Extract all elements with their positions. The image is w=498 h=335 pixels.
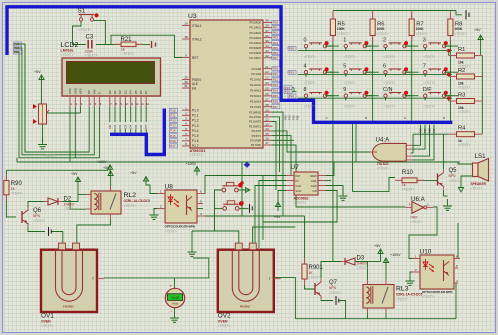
- svg-text:<TEXT>: <TEXT>: [384, 55, 396, 59]
- svg-text:P0.2/AD2: P0.2/AD2: [249, 31, 261, 35]
- svg-text:<TEXT>: <TEXT>: [458, 86, 470, 90]
- svg-text:<TEXT>: <TEXT>: [124, 204, 137, 208]
- svg-text:P07: P07: [273, 56, 279, 60]
- svg-text:AT89C51: AT89C51: [190, 149, 206, 153]
- svg-text:<TEXT>: <TEXT>: [344, 81, 356, 85]
- svg-text:10: 10: [265, 108, 269, 112]
- svg-text:<TEXT>: <TEXT>: [304, 81, 316, 85]
- svg-text:P0.6/AD6: P0.6/AD6: [249, 51, 261, 55]
- svg-text:P17: P17: [170, 144, 176, 148]
- svg-text:<TEXT>: <TEXT>: [165, 230, 177, 234]
- svg-text:RS: RS: [87, 90, 91, 94]
- svg-text:23: 23: [265, 76, 269, 80]
- svg-text:<TEXT>: <TEXT>: [61, 53, 74, 57]
- svg-text:P1.0: P1.0: [192, 109, 199, 113]
- svg-text:Heater: Heater: [240, 305, 252, 309]
- svg-text:36: 36: [265, 34, 269, 38]
- svg-text:R3: R3: [458, 92, 465, 98]
- svg-text:U3: U3: [188, 13, 197, 20]
- svg-text:P23: P23: [284, 115, 288, 120]
- svg-text:3: 3: [423, 38, 426, 44]
- svg-text:U7: U7: [291, 164, 300, 171]
- svg-text:<TEXT>: <TEXT>: [357, 266, 369, 270]
- svg-text:<TEXT>: <TEXT>: [458, 143, 470, 147]
- svg-text:<TEXT>: <TEXT>: [416, 32, 428, 36]
- svg-text:17: 17: [265, 141, 269, 145]
- svg-text:P1.5: P1.5: [192, 134, 199, 138]
- svg-text:<TEXT>: <TEXT>: [384, 105, 396, 109]
- svg-text:P22: P22: [289, 94, 295, 98]
- svg-text:33: 33: [265, 49, 269, 53]
- svg-text:P3.6/WR: P3.6/WR: [250, 139, 261, 143]
- svg-text:<TEXT>: <TEXT>: [33, 219, 45, 223]
- svg-text:P27: P27: [273, 105, 279, 109]
- svg-text:<TEXT>: <TEXT>: [423, 81, 435, 85]
- svg-text:<TEXT>: <TEXT>: [85, 54, 98, 58]
- svg-text:P1.3: P1.3: [192, 124, 199, 128]
- svg-text:P2.5/A13: P2.5/A13: [250, 94, 262, 98]
- svg-text:<TEXT>: <TEXT>: [218, 324, 231, 328]
- svg-text:B: B: [364, 117, 368, 119]
- svg-text:P1.7: P1.7: [192, 144, 199, 148]
- svg-text:0: 0: [304, 38, 307, 44]
- svg-text:LM016L: LM016L: [61, 49, 75, 53]
- svg-text:7: 7: [423, 64, 426, 70]
- svg-text:<TEXT>: <TEXT>: [410, 220, 423, 224]
- svg-text:VSS: VSS: [68, 88, 72, 94]
- svg-text:<TEXT>: <TEXT>: [294, 201, 307, 205]
- svg-text:U4:A: U4:A: [376, 137, 391, 144]
- svg-text:P15: P15: [170, 134, 176, 138]
- svg-text:P14: P14: [170, 129, 176, 133]
- svg-text:<TEXT>: <TEXT>: [41, 324, 54, 328]
- svg-text:OZRL-1A-C5-DC5: OZRL-1A-C5-DC5: [396, 293, 423, 297]
- svg-text:P20: P20: [289, 46, 295, 50]
- svg-text:ADC0832: ADC0832: [294, 197, 309, 201]
- svg-text:P3.5/T1: P3.5/T1: [252, 134, 262, 138]
- svg-text:P0.4/AD4: P0.4/AD4: [249, 41, 261, 45]
- svg-text:T: T: [92, 277, 94, 281]
- svg-text:P13: P13: [170, 124, 176, 128]
- svg-text:D2: D2: [118, 124, 122, 128]
- svg-text:P2.4/A12: P2.4/A12: [250, 89, 262, 93]
- svg-text:<TEXT>: <TEXT>: [344, 55, 356, 59]
- svg-text:P02: P02: [273, 31, 279, 35]
- svg-text:D6: D6: [139, 124, 143, 128]
- svg-text:VCC: VCC: [296, 189, 302, 193]
- svg-text:VDD: VDD: [73, 88, 77, 94]
- svg-text:+: +: [170, 284, 173, 289]
- svg-text:D6: D6: [139, 90, 143, 94]
- svg-text:P3.2/INT0: P3.2/INT0: [249, 120, 262, 124]
- svg-text:OZRL-1A-C5-DC5: OZRL-1A-C5-DC5: [124, 199, 151, 203]
- svg-text:P26: P26: [273, 99, 279, 103]
- svg-text:P24: P24: [288, 115, 292, 120]
- svg-text:P2.0/A8: P2.0/A8: [251, 67, 261, 71]
- svg-text:OVEN: OVEN: [41, 320, 51, 324]
- svg-text:7407: 7407: [410, 216, 418, 220]
- svg-text:9: 9: [343, 87, 346, 93]
- svg-text:P10: P10: [170, 108, 176, 112]
- svg-text:D2: D2: [118, 90, 122, 94]
- svg-text:OPTOCOUPLER-NPN: OPTOCOUPLER-NPN: [165, 225, 195, 229]
- svg-text:<TEXT>: <TEXT>: [11, 192, 23, 196]
- svg-text:CH2: CH2: [311, 184, 317, 188]
- svg-text:P3.1/TXD: P3.1/TXD: [249, 115, 261, 119]
- svg-text:A: A: [324, 117, 328, 119]
- svg-text:U8: U8: [165, 184, 174, 191]
- svg-text:100K: 100K: [377, 27, 386, 31]
- svg-text:<TEXT>: <TEXT>: [309, 276, 321, 280]
- svg-text:<TEXT>: <TEXT>: [377, 32, 389, 36]
- svg-text:<TEXT>: <TEXT>: [449, 179, 461, 183]
- svg-text:5: 5: [343, 64, 346, 70]
- svg-text:C/N: C/N: [383, 87, 393, 93]
- svg-text:P2.6/A14: P2.6/A14: [250, 99, 262, 103]
- svg-text:P03: P03: [273, 36, 279, 40]
- svg-text:P3.3/INT1: P3.3/INT1: [249, 124, 262, 128]
- svg-text:<TEXT>: <TEXT>: [78, 28, 91, 32]
- svg-text:XTAL1: XTAL1: [192, 24, 202, 28]
- svg-text:+5V: +5V: [474, 28, 481, 32]
- svg-text:OVEN: OVEN: [218, 320, 228, 324]
- svg-text:39: 39: [265, 19, 269, 23]
- svg-text:<TEXT>: <TEXT>: [384, 81, 396, 85]
- svg-text:8: 8: [304, 87, 307, 93]
- svg-text:D/F: D/F: [423, 87, 433, 93]
- svg-text:<TEXT>: <TEXT>: [423, 55, 435, 59]
- svg-text:100K: 100K: [416, 27, 425, 31]
- svg-text:6: 6: [383, 64, 386, 70]
- svg-text:P24: P24: [419, 128, 423, 133]
- svg-text:<TEXT>: <TEXT>: [121, 52, 134, 56]
- svg-text:D5: D5: [134, 124, 138, 128]
- svg-text:R10: R10: [402, 170, 414, 176]
- svg-text:34: 34: [265, 44, 269, 48]
- svg-text:100K: 100K: [337, 27, 346, 31]
- svg-text:P0.7/AD7: P0.7/AD7: [249, 56, 261, 60]
- svg-text:+100V: +100V: [96, 160, 107, 164]
- svg-text:RL2: RL2: [124, 192, 137, 199]
- svg-text:P25: P25: [273, 94, 279, 98]
- svg-text:S1: S1: [78, 8, 86, 15]
- svg-text:+5V: +5V: [34, 70, 41, 74]
- svg-text:19: 19: [184, 22, 188, 26]
- svg-text:<TEXT>: <TEXT>: [458, 110, 470, 114]
- svg-text:P26: P26: [296, 115, 300, 120]
- svg-text:XTAL2: XTAL2: [192, 37, 202, 41]
- svg-text:1N4007: 1N4007: [357, 262, 368, 266]
- svg-text:D3: D3: [123, 90, 127, 94]
- svg-text:D4: D4: [129, 124, 133, 128]
- svg-text:+100V: +100V: [186, 162, 197, 166]
- svg-text:35: 35: [265, 39, 269, 43]
- svg-text:<TEXT>: <TEXT>: [454, 32, 466, 36]
- svg-text:D1: D1: [113, 90, 117, 94]
- svg-text:CLK: CLK: [296, 184, 302, 188]
- svg-text:P01: P01: [273, 26, 279, 30]
- svg-text:P2.3/A11: P2.3/A11: [250, 83, 261, 87]
- svg-text:<TEXT>: <TEXT>: [402, 188, 414, 192]
- svg-text:+5V: +5V: [274, 215, 281, 219]
- svg-text:VEE: VEE: [78, 88, 82, 94]
- svg-text:<TEXT>: <TEXT>: [44, 154, 57, 158]
- svg-text:22: 22: [265, 70, 269, 74]
- svg-text:P26: P26: [428, 128, 432, 133]
- svg-text:OPTOCOUPLER-NPN: OPTOCOUPLER-NPN: [422, 290, 452, 294]
- svg-text:LS1: LS1: [475, 153, 487, 160]
- svg-text:NPN: NPN: [329, 286, 337, 290]
- svg-text:P1.1: P1.1: [192, 114, 199, 118]
- svg-text:P24: P24: [285, 90, 291, 94]
- svg-text:D0: D0: [108, 124, 112, 128]
- svg-text:25: 25: [265, 87, 269, 91]
- svg-text:+100V: +100V: [390, 253, 401, 257]
- svg-text:P1.2: P1.2: [192, 119, 199, 123]
- svg-text:T: T: [269, 277, 271, 281]
- svg-text:D5: D5: [134, 90, 138, 94]
- svg-text:RW: RW: [92, 89, 96, 94]
- svg-text:P25: P25: [292, 115, 296, 120]
- svg-text:P16: P16: [170, 139, 176, 143]
- svg-text:1k: 1k: [402, 183, 406, 187]
- svg-text:11: 11: [265, 113, 268, 117]
- svg-text:31: 31: [184, 84, 188, 88]
- svg-text:+5V: +5V: [71, 172, 78, 176]
- svg-text:P1.6: P1.6: [192, 139, 199, 143]
- svg-text:OV2: OV2: [218, 313, 231, 320]
- svg-text:SPEAKER: SPEAKER: [471, 182, 487, 186]
- svg-text:27: 27: [265, 97, 269, 101]
- svg-text:R1: R1: [458, 47, 465, 53]
- svg-text:100K: 100K: [454, 27, 463, 31]
- svg-text:CS: CS: [312, 189, 316, 193]
- svg-text:P1.4: P1.4: [192, 129, 199, 133]
- svg-text:<TEXT>: <TEXT>: [423, 105, 435, 109]
- svg-text:E: E: [97, 92, 101, 94]
- svg-text:P0.5/AD5: P0.5/AD5: [249, 46, 261, 50]
- svg-text:+5V: +5V: [103, 166, 110, 170]
- svg-text:P24: P24: [273, 88, 279, 92]
- svg-text:P3.4/T0: P3.4/T0: [252, 129, 262, 133]
- svg-text:+0.00: +0.00: [171, 296, 180, 300]
- svg-text:P27: P27: [432, 128, 436, 133]
- svg-text:P23: P23: [273, 83, 279, 87]
- svg-text:P2.1/A9: P2.1/A9: [251, 72, 261, 76]
- svg-text:32: 32: [265, 54, 269, 58]
- svg-text:D7: D7: [144, 90, 148, 94]
- svg-text:P11: P11: [170, 113, 175, 117]
- svg-text:R4: R4: [458, 126, 466, 132]
- svg-text:P12: P12: [170, 119, 176, 123]
- svg-text:P20: P20: [273, 67, 279, 71]
- svg-text:CH1: CH1: [311, 179, 317, 183]
- svg-text:<TEXT>: <TEXT>: [471, 187, 483, 191]
- svg-text:<TEXT>: <TEXT>: [329, 291, 341, 295]
- svg-text:P2.2/A10: P2.2/A10: [250, 78, 262, 82]
- svg-text:<TEXT>: <TEXT>: [337, 32, 349, 36]
- svg-text:74LS21: 74LS21: [377, 162, 389, 166]
- svg-text:<TEXT>: <TEXT>: [64, 207, 76, 211]
- svg-text:DO: DO: [296, 174, 301, 178]
- svg-text:P0.3/AD3: P0.3/AD3: [249, 36, 261, 40]
- svg-text:+5V: +5V: [374, 244, 381, 248]
- svg-text:P06: P06: [273, 51, 279, 55]
- svg-text:D0: D0: [108, 90, 112, 94]
- svg-text:D1: D1: [113, 124, 117, 128]
- svg-text:P3.7/RD: P3.7/RD: [251, 143, 261, 147]
- svg-text:21: 21: [265, 65, 269, 69]
- svg-text:P00: P00: [273, 21, 279, 25]
- svg-text:OV1: OV1: [41, 313, 54, 320]
- svg-text:C3: C3: [86, 35, 94, 41]
- svg-text:Volts: Volts: [172, 301, 179, 305]
- svg-text:R2: R2: [458, 68, 465, 74]
- svg-text:P21: P21: [273, 72, 279, 76]
- svg-text:<TEXT>: <TEXT>: [190, 153, 203, 157]
- svg-text:2: 2: [383, 38, 386, 44]
- svg-text:13: 13: [265, 122, 269, 126]
- svg-text:NPN: NPN: [33, 214, 41, 218]
- svg-text:<TEXT>: <TEXT>: [304, 105, 316, 109]
- svg-text:P05: P05: [273, 46, 279, 50]
- svg-text:P22: P22: [273, 78, 279, 82]
- svg-text:RST: RST: [192, 56, 198, 60]
- svg-text:<TEXT>: <TEXT>: [304, 55, 316, 59]
- svg-text:37: 37: [265, 29, 269, 33]
- svg-text:P25: P25: [423, 128, 427, 133]
- svg-text:D7: D7: [144, 124, 148, 128]
- svg-text:P21: P21: [289, 70, 295, 74]
- svg-text:18: 18: [184, 35, 188, 39]
- svg-text:P2.7/A15: P2.7/A15: [250, 105, 262, 109]
- svg-text:<TEXT>: <TEXT>: [344, 105, 356, 109]
- svg-text:24: 24: [265, 81, 269, 85]
- svg-text:4: 4: [304, 64, 307, 70]
- svg-text:1N4007: 1N4007: [64, 203, 75, 207]
- svg-text:P27: P27: [14, 50, 20, 54]
- svg-text:NPN: NPN: [449, 174, 457, 178]
- svg-text:D3: D3: [123, 124, 127, 128]
- svg-text:28: 28: [265, 103, 269, 107]
- svg-text:1k: 1k: [121, 48, 125, 52]
- svg-text:P0.0/AD0: P0.0/AD0: [249, 21, 261, 25]
- svg-text:+5V: +5V: [130, 171, 137, 175]
- svg-text:P04: P04: [273, 41, 279, 45]
- svg-text:<TEXT>: <TEXT>: [422, 294, 434, 298]
- svg-text:P0.1/AD1: P0.1/AD1: [249, 26, 261, 30]
- svg-text:1: 1: [343, 38, 346, 44]
- svg-text:RL3: RL3: [396, 286, 409, 293]
- svg-text:Heater: Heater: [63, 305, 75, 309]
- svg-text:38: 38: [265, 24, 269, 28]
- svg-text:U10: U10: [420, 249, 432, 256]
- svg-text:D4: D4: [129, 90, 133, 94]
- svg-text:16: 16: [265, 137, 269, 141]
- svg-text:26: 26: [265, 92, 269, 96]
- svg-text:15: 15: [265, 132, 269, 136]
- svg-text:P3.0/RXD: P3.0/RXD: [249, 110, 261, 114]
- svg-text:<TEXT>: <TEXT>: [377, 167, 390, 171]
- svg-text:<TEXT>: <TEXT>: [396, 298, 409, 302]
- svg-text:GND: GND: [310, 174, 316, 178]
- svg-text:12: 12: [265, 118, 269, 122]
- svg-text:DI: DI: [296, 179, 299, 183]
- svg-text:14: 14: [265, 127, 269, 131]
